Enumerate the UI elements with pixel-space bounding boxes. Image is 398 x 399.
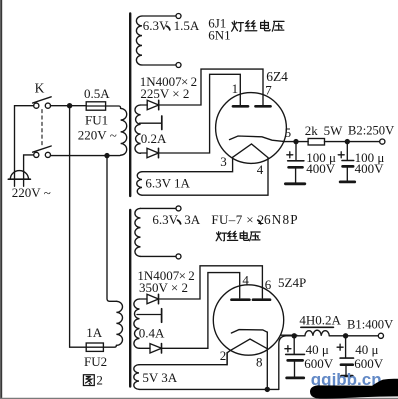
svg-text:600V: 600V [354, 356, 384, 371]
5Z4P cathode [231, 330, 267, 333]
wire: pole2 left to plug right prong [24, 155, 34, 186]
capacitor C3 ground stem [294, 360, 296, 376]
transformer T2 core [129, 210, 131, 387]
node: filter junction 2 [345, 139, 350, 144]
resistor 2k 5W [308, 139, 324, 146]
wire: cathode to B2 rail [285, 141, 308, 143]
wire: 6.3V1.5A bottom lead [142, 64, 176, 66]
figure label 图2 [83, 375, 94, 386]
ground bar C1 [285, 182, 304, 185]
6Z4 anode plate (pin1) [233, 105, 248, 108]
wire: D1 to 6Z4 plate 7 (outer loop) [159, 69, 263, 105]
svg-text:40 μ: 40 μ [306, 342, 329, 357]
terminal: 6.3V1.5A bottom [176, 63, 181, 68]
plug dome [10, 171, 28, 180]
T2 winding 6.3V 3A [135, 208, 141, 256]
svg-text:2k: 2k [305, 123, 319, 138]
wire: HV bottom to diode D4 [140, 347, 151, 349]
capacitor C3 40u/600V lead [293, 336, 295, 354]
filament-voltage label (top) [233, 21, 235, 25]
svg-text:0.4A: 0.4A [139, 326, 165, 341]
switch K pole 2 blade [33, 146, 52, 152]
wire: resistor to B2 terminal [325, 141, 380, 143]
switch K gang link (dashed) [41, 110, 43, 147]
node: filter junction 3 [292, 333, 297, 338]
wire: 6.3V3A top lead [141, 207, 176, 209]
plug base [8, 178, 30, 180]
svg-text:FU1: FU1 [85, 113, 108, 128]
T2 HV winding 350Vx2 [134, 299, 140, 348]
svg-text:220V ~: 220V ~ [12, 185, 51, 200]
svg-text:4H0.2A: 4H0.2A [299, 312, 341, 327]
diode D4 (1N4007) [150, 344, 162, 353]
node: rail junction pin 8 [265, 387, 270, 392]
wire: primary bottom to switch pole2 [51, 154, 121, 156]
6Z4 cathode [230, 136, 285, 142]
tube 6Z4 envelope [216, 93, 287, 164]
wire: 6.3V1A bottom to pin 4 [142, 158, 268, 196]
T1 winding 6.3V 1.5A [136, 16, 142, 65]
wire: D2 to 6Z4 plate 1 (inner loop) [159, 74, 241, 153]
svg-text:FU–7 × 2: FU–7 × 2 [211, 212, 264, 227]
svg-text:FU2: FU2 [84, 354, 107, 369]
T2 winding 5V 3A [134, 365, 139, 390]
wire: down-feed to T2 primary top [107, 156, 116, 302]
svg-text:K: K [35, 81, 45, 96]
svg-text:B2:250V: B2:250V [348, 124, 394, 138]
wire: FU2 to T2 primary bottom [103, 345, 116, 347]
terminal: 6.3V3A top [176, 206, 181, 211]
wire: 5V top to pin 2 [139, 353, 227, 365]
wire: pin 8 drop to rail [266, 332, 268, 389]
svg-text:3: 3 [220, 154, 227, 169]
svg-text:6: 6 [265, 277, 272, 292]
filament-voltage label (bottom) [218, 232, 220, 236]
capacitor C1 plates [288, 160, 304, 162]
wire: D4 to 5Z4P plate 4 (inner loop) [162, 273, 240, 349]
svg-text:1.5A: 1.5A [174, 18, 200, 33]
wire: pole1 left to plug left prong [15, 106, 34, 187]
terminal B1 [378, 333, 383, 338]
watermark blot bar [310, 379, 398, 399]
terminal: 6.3V1.5A top [176, 14, 181, 19]
T1 HV winding 225Vx2 [135, 105, 141, 153]
node: filter junction 1 [293, 139, 298, 144]
capacitor C4 plates [340, 357, 353, 359]
ground bar C3 [287, 376, 304, 379]
svg-text:600V: 600V [304, 356, 334, 371]
capacitor C1 100u/400V lead [295, 142, 297, 161]
svg-text:225V × 2: 225V × 2 [140, 86, 189, 101]
wire: HV top to diode D3 [140, 298, 148, 300]
capacitor C1 plus sign [287, 152, 293, 158]
svg-text:8: 8 [256, 354, 263, 369]
6Z4 heater [233, 144, 268, 158]
svg-text:2: 2 [220, 348, 227, 363]
capacitor C3 plates [286, 353, 305, 355]
diode D3 (1N4007) [147, 294, 159, 303]
svg-text:400V: 400V [355, 161, 385, 176]
wire: HV bottom to diode D2 [141, 152, 147, 154]
scan edge left [0, 0, 2, 399]
ground bar C4 [341, 375, 352, 378]
switch K pole 2 contacts [34, 152, 39, 157]
transformer T1 primary winding 220V [121, 108, 127, 155]
tube 5Z4P envelope [213, 285, 283, 355]
transformer T2 primary winding [116, 301, 122, 345]
capacitor C4 40u/600V lead [345, 336, 347, 358]
T1 winding 6.3V 1A [137, 172, 142, 196]
svg-text:4: 4 [257, 162, 264, 177]
svg-text:2: 2 [191, 74, 198, 89]
svg-text:350V × 2: 350V × 2 [139, 280, 188, 295]
svg-text:3A: 3A [184, 212, 201, 227]
node: junction mains top [67, 103, 72, 108]
svg-text:1: 1 [232, 81, 239, 96]
wire: fuse to primary T1 [106, 106, 121, 108]
capacitor C2 100u/400V lead [346, 142, 348, 161]
terminal B2 [380, 139, 385, 144]
wire: B+ riser from rail [279, 336, 297, 390]
svg-text:5W: 5W [324, 123, 344, 138]
T2 HV center tap [137, 314, 161, 316]
diode D2 (1N4007) [147, 148, 159, 157]
wire: 6.3V1A top to pin 3 [142, 157, 233, 171]
node: filter junction 4 [343, 333, 348, 338]
wire: tube side to junction [281, 334, 297, 336]
capacitor C2 plus sign [338, 152, 344, 158]
capacitor C1 ground stem [295, 167, 297, 182]
5Z4P anode plate (pin4) [232, 298, 250, 301]
svg-text:220V ~: 220V ~ [78, 127, 117, 142]
diode D1 (1N4007) [147, 100, 159, 109]
5Z4P anode plate (pin6) [253, 298, 270, 301]
svg-text:5: 5 [285, 125, 292, 140]
svg-text:6.3V: 6.3V [143, 18, 169, 33]
wire: 5V bottom rail to pin 8 junction [139, 388, 279, 390]
wire: HV top to diode D1 [141, 104, 148, 106]
svg-text:4: 4 [242, 272, 249, 287]
choke core line [301, 326, 334, 328]
wire: 6.3V3A bottom lead [141, 255, 176, 257]
switch K pole 1 contacts [34, 103, 39, 108]
choke 4H 0.2A [294, 335, 305, 337]
ground bar C2 [340, 180, 355, 183]
wire: heater left to pin 2 [227, 351, 230, 365]
wire: 6.3V1.5A top lead [142, 15, 176, 17]
svg-text:B1:400V: B1:400V [347, 318, 393, 332]
svg-text:1A: 1A [86, 325, 103, 340]
wire: down-feed left to FU2 [70, 106, 87, 348]
svg-text:5Z4P: 5Z4P [278, 275, 306, 290]
svg-text:2: 2 [188, 268, 195, 283]
svg-text:0.5A: 0.5A [84, 86, 110, 101]
fuse FU2 [86, 343, 103, 351]
wire: choke to B1 terminal [329, 335, 378, 337]
fuse FU1 [86, 102, 105, 110]
scan edge bottom [0, 397, 398, 399]
capacitor C4 ground stem [345, 365, 347, 376]
transformer T1 core [129, 14, 131, 197]
svg-text:6.3V 1A: 6.3V 1A [145, 176, 190, 191]
wire: D3 to 5Z4P plate 6 (outer loop) [159, 266, 263, 299]
svg-text:0.2A: 0.2A [141, 131, 167, 146]
svg-text:400V: 400V [306, 161, 336, 176]
wire: pole1 right to fuse FU1 [51, 105, 87, 107]
svg-text:6.3V: 6.3V [152, 212, 178, 227]
capacitor C4 plus sign [337, 344, 343, 350]
svg-text:6N8P: 6N8P [264, 212, 299, 227]
svg-text:6N1: 6N1 [208, 28, 230, 43]
6Z4 anode plate (pin7) [256, 105, 271, 108]
T1 HV center tap [140, 122, 162, 124]
terminal: 6.3V3A bottom [176, 254, 181, 259]
capacitor C3 plus sign [285, 346, 291, 352]
node: junction primary bottom [104, 153, 109, 158]
5Z4P heater [230, 339, 267, 351]
switch K pole 1 blade [33, 97, 52, 103]
svg-text:2: 2 [96, 373, 103, 388]
svg-text:5V 3A: 5V 3A [142, 370, 177, 385]
svg-text:40 μ: 40 μ [355, 342, 378, 357]
capacitor C2 plates [342, 160, 354, 162]
capacitor C2 ground stem [346, 166, 348, 180]
svg-text:7: 7 [265, 83, 272, 98]
